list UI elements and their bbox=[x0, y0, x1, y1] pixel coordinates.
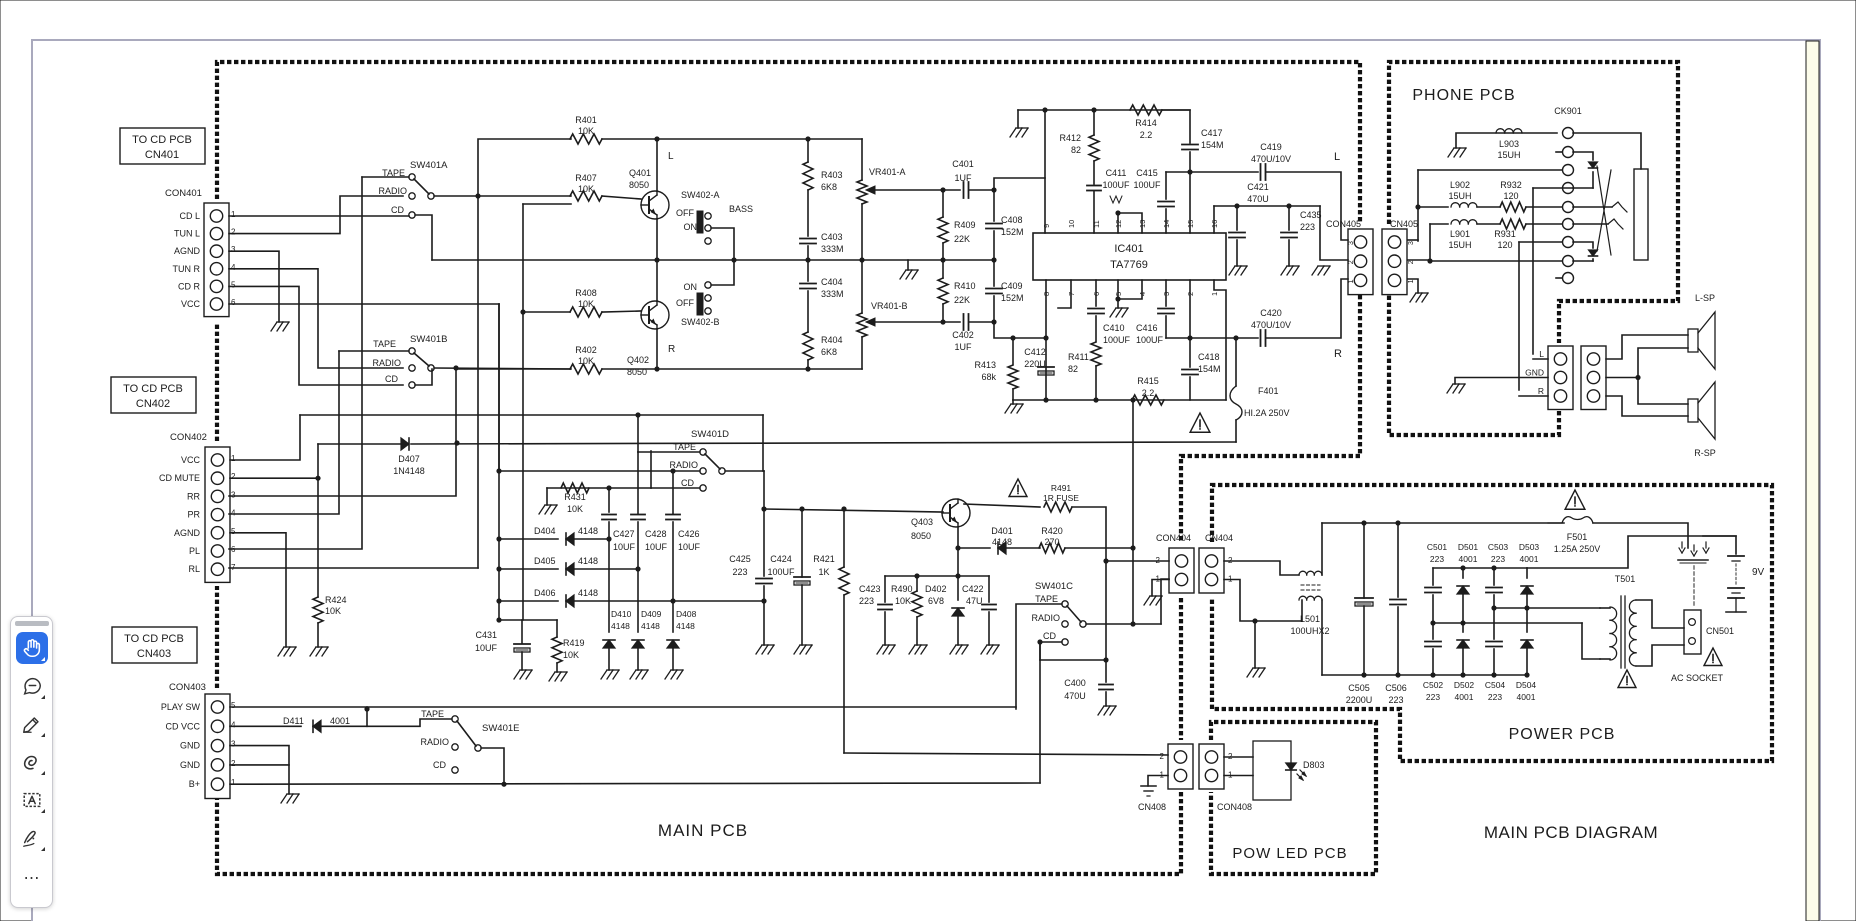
wire Q403 emitter bbox=[957, 527, 959, 548]
junction VCC R408 bbox=[520, 309, 525, 314]
connector CON404 bbox=[1169, 548, 1194, 593]
wire riser to pole bbox=[1132, 548, 1134, 624]
MAIN PCB dashed outline bbox=[217, 62, 1360, 224]
junction R413 bbox=[1010, 335, 1015, 340]
svg-text:100UHX2: 100UHX2 bbox=[1290, 626, 1329, 636]
resistor R415 bbox=[1132, 395, 1164, 405]
jack lever 1 bbox=[1597, 166, 1611, 255]
svg-text:GND: GND bbox=[1525, 368, 1544, 378]
svg-text:10K: 10K bbox=[578, 356, 594, 366]
wire pin7 down bbox=[1058, 280, 1071, 308]
potentiometer VR401-B bbox=[857, 313, 867, 337]
junction mid rail R409 bbox=[940, 257, 945, 262]
wire C425 gnd bbox=[763, 586, 765, 645]
wire CN408 pin1 gnd bbox=[1148, 776, 1168, 787]
svg-text:VCC: VCC bbox=[181, 455, 201, 465]
ground C421 bbox=[1229, 266, 1235, 275]
svg-text:82: 82 bbox=[1071, 145, 1081, 155]
wire R401 riser bbox=[478, 139, 571, 568]
svg-text:R407: R407 bbox=[575, 173, 597, 183]
svg-text:10K: 10K bbox=[563, 650, 579, 660]
wire D409 bbox=[637, 569, 639, 632]
resistor R410 bbox=[938, 278, 948, 304]
wire GND3 bbox=[230, 746, 289, 765]
capacitor C425 bbox=[756, 578, 772, 580]
svg-text:C504: C504 bbox=[1485, 680, 1506, 690]
wire R413 gnd bbox=[1012, 400, 1014, 404]
svg-text:CON404: CON404 bbox=[1156, 533, 1191, 543]
svg-text:L: L bbox=[1334, 151, 1340, 163]
tool comment bbox=[16, 670, 48, 702]
capacitor C423 bbox=[878, 604, 892, 606]
wire C417 down bbox=[1189, 152, 1191, 233]
junction pb bbox=[1430, 672, 1435, 677]
svg-text:RADIO: RADIO bbox=[420, 737, 449, 747]
jack contact CK901-7 bbox=[1563, 237, 1574, 248]
wire pole riser CN404 bbox=[1161, 579, 1169, 624]
diode D411 bbox=[313, 720, 321, 732]
junction bt1 bbox=[1460, 565, 1465, 570]
svg-text:C408: C408 bbox=[1001, 215, 1023, 225]
junction R410 bot bbox=[940, 319, 945, 324]
wire pole-C bbox=[1086, 623, 1161, 625]
svg-text:223: 223 bbox=[1430, 554, 1444, 564]
svg-text:TAPE: TAPE bbox=[373, 339, 396, 349]
junction C435 bbox=[1286, 203, 1291, 208]
svg-text:D411: D411 bbox=[283, 716, 304, 726]
wire pin6 c410 bbox=[1095, 280, 1097, 306]
wire C427 down bbox=[608, 488, 610, 512]
wire VCC dist riser bbox=[522, 204, 524, 620]
svg-text:1UF: 1UF bbox=[954, 342, 972, 352]
svg-text:TAPE: TAPE bbox=[421, 709, 444, 719]
warning triangle F501 bbox=[1565, 490, 1585, 509]
wire F401 down bbox=[1235, 420, 1237, 442]
svg-text:CD: CD bbox=[433, 760, 446, 770]
junction D406 ext bbox=[761, 598, 766, 603]
wire jack c4 bbox=[1592, 172, 1594, 188]
svg-text:C403: C403 bbox=[821, 232, 843, 242]
ground C423 bbox=[877, 645, 883, 654]
svg-text:C506: C506 bbox=[1385, 683, 1407, 693]
wire CON408 pin2 led bbox=[1224, 756, 1253, 758]
wire IC bottom rail bbox=[1013, 399, 1226, 401]
ground C422 bbox=[981, 645, 987, 654]
wire spk bot bbox=[1606, 396, 1688, 416]
wire R412 bbox=[1093, 110, 1095, 135]
jack contact CK901-3 bbox=[1563, 165, 1574, 176]
svg-text:223: 223 bbox=[1426, 692, 1440, 702]
wire TUN R to SW401B RADIO bbox=[229, 269, 403, 368]
svg-text:R413: R413 bbox=[974, 360, 996, 370]
svg-text:15UH: 15UH bbox=[1448, 240, 1471, 250]
svg-text:10K: 10K bbox=[567, 504, 583, 514]
svg-text:R415: R415 bbox=[1137, 376, 1159, 386]
diode jack bot bbox=[1589, 250, 1598, 256]
wire TAPE-A feed bbox=[362, 176, 409, 178]
resistor R413 bbox=[1008, 365, 1018, 389]
diode D501 bbox=[1457, 586, 1469, 594]
wire pin8 down bbox=[1045, 280, 1047, 400]
svg-text:4001: 4001 bbox=[1520, 554, 1539, 564]
resistor R421 bbox=[839, 567, 849, 595]
junction SW402 rail bbox=[731, 257, 736, 262]
svg-text:SW401B: SW401B bbox=[410, 334, 448, 345]
svg-text:F501: F501 bbox=[1567, 532, 1588, 542]
svg-text:TUN R: TUN R bbox=[173, 264, 201, 274]
svg-text:2.2: 2.2 bbox=[1140, 130, 1153, 140]
wire R411 bot bbox=[1095, 366, 1097, 400]
wire L to IC bbox=[994, 178, 1045, 190]
junction rail C403 bbox=[805, 136, 810, 141]
wire C401 out bbox=[969, 189, 994, 191]
svg-text:PHONE PCB: PHONE PCB bbox=[1412, 87, 1515, 104]
svg-text:R431: R431 bbox=[564, 492, 586, 502]
wire power bottom bbox=[1322, 674, 1527, 676]
wire bridge top ext bbox=[1527, 536, 1736, 568]
svg-text:4148: 4148 bbox=[641, 621, 660, 631]
wire jack c3 long bbox=[1418, 169, 1562, 171]
wire c4 Lsp riser bbox=[1533, 187, 1573, 189]
wire R419 bbox=[556, 620, 558, 637]
connector CON405 bbox=[1348, 229, 1373, 295]
junction TAPE-D bbox=[635, 412, 640, 417]
svg-text:22K: 22K bbox=[954, 295, 970, 305]
connector CON402 bbox=[205, 447, 230, 582]
svg-text:4: 4 bbox=[231, 509, 236, 518]
svg-text:VCC: VCC bbox=[181, 299, 201, 309]
wire pin5 gnd bbox=[1117, 299, 1119, 308]
ground CN405 bbox=[1410, 293, 1416, 302]
wire D401 line bbox=[958, 547, 990, 549]
svg-text:Q403: Q403 bbox=[911, 517, 933, 527]
wire L501 up bbox=[1321, 523, 1323, 575]
svg-text:PL: PL bbox=[189, 546, 200, 556]
svg-text:10K: 10K bbox=[578, 184, 594, 194]
wire CN405 p2 bbox=[1408, 259, 1430, 261]
POW LED PCB dashed outline bbox=[1211, 722, 1376, 874]
svg-text:D501: D501 bbox=[1458, 542, 1479, 552]
svg-text:9V: 9V bbox=[1752, 567, 1765, 578]
wire C421 rail bbox=[1214, 205, 1320, 207]
wire CD VCC bbox=[230, 725, 301, 727]
wire C504 bbox=[1493, 608, 1495, 639]
jack contact CK901-2 bbox=[1563, 147, 1574, 158]
wire D406 ext bbox=[673, 600, 764, 602]
wire pin16 up bbox=[1213, 206, 1215, 233]
junction m2 bbox=[1460, 620, 1465, 625]
svg-text:R412: R412 bbox=[1059, 133, 1081, 143]
wire C402 out bbox=[969, 321, 994, 323]
wire L903 line bbox=[1456, 133, 1557, 148]
ground D408 bbox=[665, 670, 671, 679]
wire reg top rail bbox=[885, 575, 958, 577]
wire T501 sec top bbox=[1636, 600, 1684, 628]
wire gnd stub top bbox=[1017, 110, 1019, 128]
junction R491 CON404 bbox=[1103, 558, 1108, 563]
svg-text:R931: R931 bbox=[1494, 229, 1516, 239]
svg-text:CD VCC: CD VCC bbox=[165, 721, 200, 731]
wire RADIO-D riser bbox=[498, 304, 500, 471]
junction C431 bbox=[496, 617, 501, 622]
ground sp bbox=[1447, 384, 1453, 393]
svg-text:TAPE: TAPE bbox=[1035, 594, 1058, 604]
svg-text:R402: R402 bbox=[575, 345, 597, 355]
svg-text:TO CD PCB: TO CD PCB bbox=[124, 633, 184, 645]
svg-text:CN402: CN402 bbox=[136, 398, 170, 410]
wire power top bbox=[1322, 522, 1564, 524]
junction pin15 C419 bbox=[1187, 169, 1192, 174]
svg-text:10UF: 10UF bbox=[678, 542, 701, 552]
svg-text:MAIN PCB: MAIN PCB bbox=[658, 821, 748, 840]
wire battery top bbox=[1703, 536, 1736, 554]
warning triangle CN501 bbox=[1704, 648, 1722, 666]
svg-text:IC401: IC401 bbox=[1114, 243, 1143, 255]
svg-text:223: 223 bbox=[1388, 695, 1403, 705]
diode D407 bbox=[401, 438, 409, 450]
capacitor C504 bbox=[1486, 641, 1502, 643]
junction m4 bbox=[1524, 605, 1529, 610]
wire CD-C bbox=[1040, 642, 1062, 660]
transistor Q401 bbox=[641, 191, 669, 219]
svg-text:CK901: CK901 bbox=[1554, 106, 1582, 116]
wire C428 riser bbox=[637, 452, 639, 514]
svg-text:TO CD PCB: TO CD PCB bbox=[123, 383, 183, 395]
svg-text:223: 223 bbox=[1300, 222, 1315, 232]
wire C411 to pin11 bbox=[1093, 191, 1095, 233]
svg-text:15: 15 bbox=[1186, 220, 1195, 228]
resistor R931 bbox=[1500, 219, 1526, 229]
svg-text:R401: R401 bbox=[575, 115, 597, 125]
AC plug bbox=[1678, 559, 1708, 561]
diode D406 bbox=[566, 595, 574, 607]
tool hand (active) bbox=[16, 632, 48, 664]
svg-text:TO CD PCB: TO CD PCB bbox=[132, 134, 192, 146]
capacitor C435 bbox=[1281, 232, 1297, 234]
wire B rail riser bbox=[1132, 400, 1134, 548]
svg-text:2: 2 bbox=[231, 759, 236, 768]
junction m1 bbox=[1430, 620, 1435, 625]
op-amp IC401 TA7769 bbox=[1033, 233, 1226, 280]
wire bus 509 bbox=[764, 509, 943, 512]
wire top rail L bbox=[657, 138, 862, 140]
junction rail riser bbox=[1130, 397, 1135, 402]
svg-text:1UF: 1UF bbox=[954, 173, 972, 183]
svg-text:C435: C435 bbox=[1300, 210, 1322, 220]
wire pin14 link bbox=[1165, 172, 1167, 199]
wire spk mid up bbox=[1638, 348, 1688, 378]
svg-text:D405: D405 bbox=[534, 556, 556, 566]
svg-text:10K: 10K bbox=[578, 126, 594, 136]
junction pb bbox=[1524, 672, 1529, 677]
svg-text:L901: L901 bbox=[1450, 229, 1470, 239]
junction spk bbox=[1635, 375, 1640, 380]
junction mid rail C bbox=[805, 257, 810, 262]
junction pin2 bbox=[1187, 335, 1192, 340]
wire AGND down bbox=[229, 251, 279, 322]
resistor R490 bbox=[912, 591, 922, 617]
svg-text:C424: C424 bbox=[770, 554, 792, 564]
capacitor C403 bbox=[800, 238, 816, 240]
ground top rail bbox=[1010, 128, 1016, 137]
ground C400 bbox=[1098, 706, 1104, 715]
capacitor C400 bbox=[1099, 684, 1113, 686]
svg-text:68k: 68k bbox=[981, 372, 996, 382]
inductor L901 bbox=[1451, 220, 1460, 224]
wire CD-A drop bbox=[415, 215, 432, 260]
svg-text:15UH: 15UH bbox=[1448, 191, 1471, 201]
svg-text:L501: L501 bbox=[1300, 614, 1320, 624]
warning triangle T501 bbox=[1618, 670, 1636, 688]
svg-text:C409: C409 bbox=[1001, 281, 1023, 291]
resistor R401 bbox=[570, 134, 602, 144]
fuse F501 bbox=[1548, 517, 1593, 523]
connector CN404 bbox=[1199, 548, 1224, 593]
resistor R409 bbox=[938, 217, 948, 243]
svg-text:SW401E: SW401E bbox=[482, 723, 520, 734]
wire R402 line bbox=[456, 368, 570, 370]
wire sp gnd bbox=[1455, 378, 1548, 385]
svg-text:SW402-B: SW402-B bbox=[681, 317, 720, 327]
svg-text:F401: F401 bbox=[1258, 386, 1279, 396]
svg-text:SW401A: SW401A bbox=[410, 160, 448, 171]
svg-text:10UF: 10UF bbox=[475, 643, 498, 653]
connector speaker out bbox=[1548, 346, 1573, 410]
capacitor C505 bbox=[1355, 597, 1373, 599]
wire CON404 pin1 gnd bbox=[1152, 580, 1169, 597]
wire T501 prim bot bbox=[1600, 658, 1610, 660]
label box TO CD PCB CN403 bbox=[112, 627, 197, 663]
wire Q402 collector bbox=[656, 260, 658, 301]
junction mid rail C409 bbox=[991, 257, 996, 262]
junction Q403 emitter bbox=[955, 545, 960, 550]
wire CON404 pin2 bbox=[1106, 560, 1169, 562]
capacitor C420 bbox=[1260, 330, 1262, 346]
junction top a bbox=[1042, 107, 1047, 112]
wire R channel to C420 bbox=[994, 322, 1046, 338]
capacitor C419 bbox=[1260, 164, 1262, 180]
capacitor C404 bbox=[800, 283, 816, 285]
junction bt2 bbox=[1491, 565, 1496, 570]
svg-text:223: 223 bbox=[1491, 554, 1505, 564]
wire Q401 collector bbox=[656, 139, 658, 191]
resistor R408 bbox=[570, 307, 602, 317]
wire CN404 gnd stub bbox=[1254, 621, 1256, 668]
svg-text:R420: R420 bbox=[1041, 526, 1063, 536]
svg-text:1: 1 bbox=[1348, 279, 1355, 283]
svg-text:1.25A 250V: 1.25A 250V bbox=[1554, 544, 1601, 554]
svg-text:152M: 152M bbox=[1001, 293, 1024, 303]
wire D410 bbox=[608, 539, 610, 632]
wire c6 riser bbox=[1429, 224, 1431, 261]
wire C400 link bbox=[1040, 659, 1106, 661]
resistor R431 bbox=[561, 483, 589, 493]
junction top b bbox=[1091, 107, 1096, 112]
wire spk mid dn bbox=[1638, 378, 1688, 405]
junction pin12 bbox=[1115, 210, 1120, 215]
svg-text:6K8: 6K8 bbox=[821, 347, 837, 357]
junction D411 riser bbox=[364, 706, 369, 711]
svg-text:R403: R403 bbox=[821, 170, 843, 180]
svg-text:4001: 4001 bbox=[1455, 692, 1474, 702]
wire pin5 pin4 bbox=[1118, 280, 1142, 299]
svg-text:L: L bbox=[1539, 349, 1544, 359]
junction D406b bbox=[670, 598, 675, 603]
wire R424 top bbox=[317, 478, 319, 597]
wire C428 down bbox=[637, 522, 639, 569]
ground C424 bbox=[794, 645, 800, 654]
inductor L903 bbox=[1496, 129, 1505, 133]
wire pin12 link bbox=[1118, 213, 1142, 233]
tool freehand bbox=[16, 746, 48, 778]
wire R491 to C400 bbox=[1105, 561, 1107, 660]
wire sp L bbox=[1533, 358, 1548, 360]
connector CON403 bbox=[205, 694, 230, 799]
svg-text:CN408: CN408 bbox=[1138, 802, 1166, 812]
svg-text:C501: C501 bbox=[1427, 542, 1448, 552]
svg-text:10: 10 bbox=[1067, 220, 1076, 228]
svg-text:4148: 4148 bbox=[578, 526, 598, 536]
ground D409 bbox=[630, 670, 636, 679]
wire C503 bbox=[1493, 568, 1495, 585]
diode D502 bbox=[1457, 640, 1469, 648]
svg-text:4148: 4148 bbox=[578, 588, 598, 598]
svg-text:D407: D407 bbox=[398, 454, 420, 464]
resistor R404 bbox=[803, 332, 813, 360]
wire c9 stub bbox=[1556, 277, 1562, 279]
svg-text:120: 120 bbox=[1497, 240, 1512, 250]
svg-text:D408: D408 bbox=[676, 609, 697, 619]
svg-text:CON401: CON401 bbox=[165, 188, 202, 199]
svg-text:3: 3 bbox=[1408, 241, 1415, 245]
junction D406a bbox=[496, 598, 501, 603]
wire C506 bbox=[1397, 523, 1399, 597]
wire C409 v bbox=[993, 260, 995, 286]
ground R431 bbox=[539, 505, 545, 514]
svg-text:10UF: 10UF bbox=[613, 542, 636, 552]
junction RADIO-D bus bbox=[496, 468, 501, 473]
svg-text:R-SP: R-SP bbox=[1694, 448, 1716, 458]
svg-text:R: R bbox=[1538, 386, 1544, 396]
svg-text:4001: 4001 bbox=[1517, 692, 1536, 702]
svg-text:470U: 470U bbox=[1247, 194, 1269, 204]
svg-text:100UF: 100UF bbox=[1136, 335, 1164, 345]
svg-text:C420: C420 bbox=[1260, 308, 1282, 318]
ground R419 bbox=[549, 672, 555, 681]
wire D504 bbox=[1526, 608, 1528, 632]
wire D503 bbox=[1526, 568, 1528, 578]
svg-text:4148: 4148 bbox=[676, 621, 695, 631]
svg-text:1: 1 bbox=[1408, 279, 1415, 283]
svg-text:1R FUSE: 1R FUSE bbox=[1043, 493, 1079, 503]
capacitor C421 bbox=[1229, 232, 1245, 234]
junction bus a bbox=[761, 506, 766, 511]
ground C425 bbox=[756, 645, 762, 654]
svg-text:1: 1 bbox=[231, 454, 236, 463]
svg-text:270: 270 bbox=[1044, 537, 1059, 547]
wire D407 line bbox=[318, 443, 401, 445]
svg-text:5: 5 bbox=[231, 701, 236, 710]
svg-text:R408: R408 bbox=[575, 288, 597, 298]
svg-text:C421: C421 bbox=[1247, 182, 1269, 192]
svg-text:10K: 10K bbox=[895, 596, 911, 606]
tool signature pen bbox=[16, 822, 48, 854]
svg-text:154M: 154M bbox=[1201, 140, 1224, 150]
wire pin3 down bbox=[1165, 280, 1167, 306]
svg-text:333M: 333M bbox=[821, 244, 844, 254]
svg-text:C410: C410 bbox=[1103, 323, 1125, 333]
capacitor C502 bbox=[1425, 641, 1441, 643]
